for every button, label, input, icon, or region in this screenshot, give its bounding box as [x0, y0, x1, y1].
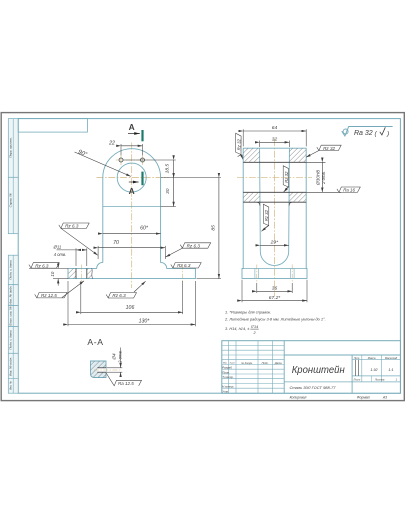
- svg-text:А3: А3: [382, 396, 387, 400]
- svg-text:Утв.: Утв.: [222, 389, 229, 393]
- svg-text:Ra 16: Ra 16: [343, 188, 355, 193]
- svg-text:): ): [386, 130, 389, 137]
- dimension 64: [243, 125, 306, 146]
- svg-text:36: 36: [272, 286, 278, 292]
- dimension 10 flange height: [50, 262, 68, 285]
- svg-text:106: 106: [126, 305, 135, 311]
- svg-text:Rz 32: Rz 32: [236, 138, 241, 150]
- svg-text:3. Н14, h14, ±: 3. Н14, h14, ±: [225, 326, 250, 331]
- section line mark A bottom: [129, 172, 143, 197]
- roughness Ra 16 on bore extension: [337, 187, 360, 193]
- roughness Rz 6.3 right of boss: [166, 243, 211, 257]
- svg-text:10: 10: [50, 271, 55, 277]
- svg-text:2 отв.: 2 отв.: [117, 350, 122, 364]
- dimension 106: [81, 281, 183, 314]
- svg-text:А: А: [129, 122, 135, 132]
- svg-text:32: 32: [272, 137, 278, 143]
- dimension 18.5 and 30: [123, 160, 221, 207]
- svg-text:18.5: 18.5: [165, 164, 171, 174]
- svg-text:Ø11: Ø11: [53, 244, 62, 249]
- svg-text:№ докум.: № докум.: [241, 361, 253, 365]
- section hatching top band: [243, 148, 259, 162]
- svg-text:Ra 32: Ra 32: [354, 130, 373, 137]
- svg-text:Rz 6.3: Rz 6.3: [177, 263, 191, 268]
- svg-text:Кронштейн: Кронштейн: [292, 365, 345, 376]
- svg-text:А-А: А-А: [87, 337, 103, 347]
- svg-text:Взам. инв. №: Взам. инв. №: [9, 306, 13, 326]
- svg-text:Разраб.: Разраб.: [222, 366, 232, 370]
- roughness Rz 6.3 upper left: [59, 223, 98, 255]
- svg-text:Сталь 30Л ГОСТ 988-77: Сталь 30Л ГОСТ 988-77: [289, 385, 336, 390]
- dimension 22: [108, 140, 142, 155]
- svg-text:Ø4: Ø4: [112, 353, 117, 361]
- svg-text:А: А: [129, 186, 135, 196]
- svg-text:Инв. № дубл.: Инв. № дубл.: [9, 285, 13, 304]
- roughness Rz 32 section top-left: [236, 133, 243, 159]
- svg-text:Rz 12.5: Rz 12.5: [41, 293, 57, 298]
- bore lower edge: [243, 191, 306, 193]
- svg-text:Справ. №: Справ. №: [9, 193, 13, 208]
- svg-text:64: 64: [272, 125, 278, 131]
- dimension 70: [98, 240, 165, 259]
- drawing frame: [18, 119, 400, 394]
- svg-text:30: 30: [165, 188, 171, 194]
- svg-text:IT14: IT14: [251, 325, 259, 329]
- section view outline: [242, 148, 307, 278]
- base top line: [243, 268, 306, 270]
- roughness Rz 32 in slot: [261, 204, 269, 231]
- svg-text:85: 85: [211, 225, 217, 231]
- svg-text:Подп. и дата: Подп. и дата: [9, 260, 13, 280]
- svg-text:60*: 60*: [140, 226, 149, 232]
- svg-text:22: 22: [108, 140, 115, 146]
- flange hole edges: [75, 268, 77, 278]
- svg-text:Перв. примен.: Перв. примен.: [9, 137, 13, 158]
- front view body outline: [68, 149, 195, 279]
- roughness Rz 6.3 under base: [106, 281, 146, 298]
- svg-text:Ra 12.5: Ra 12.5: [118, 381, 134, 386]
- svg-text:Пров.: Пров.: [222, 370, 230, 374]
- svg-text:Масса: Масса: [368, 356, 376, 360]
- svg-text:Лист: Лист: [353, 377, 362, 381]
- svg-text:Rz 32: Rz 32: [323, 146, 335, 151]
- section hatching lower band: [243, 192, 259, 202]
- svg-text:Дата: Дата: [274, 361, 282, 365]
- small hole right: [141, 158, 145, 162]
- dimension Ø30H8 2 holes: [306, 162, 341, 192]
- dimension Ø11 4 holes: [53, 244, 87, 266]
- flange local section hatching: [68, 268, 76, 278]
- top-left designation box: [18, 119, 87, 133]
- roughness Rz 6.3 on right flange: [171, 263, 201, 269]
- front view centerlines: [81, 143, 182, 289]
- left margin stamp boxes: [8, 119, 18, 394]
- svg-text:Инв. №: Инв. №: [9, 381, 13, 390]
- 90° chamfer leader: [75, 149, 131, 176]
- svg-text:Rz 6.3: Rz 6.3: [187, 243, 201, 248]
- title block: [222, 341, 401, 394]
- svg-text:Копировал: Копировал: [290, 396, 307, 400]
- svg-text:Rz 6.3: Rz 6.3: [65, 224, 79, 229]
- local section break line: [91, 268, 94, 278]
- svg-text:Н.контр.: Н.контр.: [222, 385, 234, 389]
- section line mark A top: [128, 122, 143, 141]
- svg-text:Rz 6.3: Rz 6.3: [35, 263, 49, 268]
- svg-text:67.2*: 67.2*: [269, 295, 282, 301]
- svg-text:2 отв.: 2 отв.: [321, 171, 326, 185]
- svg-text:Листов: Листов: [374, 377, 385, 381]
- roughness Rz 32 section top-right: [306, 145, 341, 157]
- dimension 130*: [68, 281, 195, 326]
- base hole silhouettes: [254, 269, 256, 279]
- svg-text:70: 70: [113, 240, 119, 246]
- svg-text:29*: 29*: [270, 240, 279, 246]
- dimension 60*: [103, 226, 161, 234]
- svg-text:Т.контр.: Т.контр.: [222, 375, 234, 379]
- svg-text:1.92: 1.92: [370, 368, 377, 372]
- small hole left: [119, 158, 123, 162]
- bore upper edge: [243, 161, 306, 163]
- A-A detail roughness Ra 12.5: [106, 373, 142, 386]
- svg-text:Масштаб: Масштаб: [385, 356, 398, 360]
- boss bottom tangent line: [103, 206, 161, 208]
- sheet background: [1, 113, 404, 401]
- dimension 67.2*: [242, 280, 307, 302]
- svg-text:4 отв.: 4 отв.: [54, 252, 66, 257]
- svg-text:Формат: Формат: [357, 396, 371, 400]
- technical requirement notes: [224, 310, 326, 335]
- dimension 85 overall: [197, 178, 222, 279]
- cavity ceiling edge: [243, 201, 306, 203]
- svg-text:Инв. № подл.: Инв. № подл.: [9, 357, 13, 376]
- title block texts: [222, 356, 397, 400]
- svg-text:Rz 32: Rz 32: [284, 171, 289, 183]
- general roughness Ra 32: [342, 127, 393, 138]
- roughness Rz 12.5 bottom left: [35, 281, 84, 298]
- dimension 29*: [260, 240, 289, 246]
- svg-text:Rz 32: Rz 32: [264, 209, 269, 221]
- svg-text:Изм.: Изм.: [223, 363, 228, 365]
- svg-text:Rz 6.3: Rz 6.3: [112, 293, 126, 298]
- svg-text:Подп.: Подп.: [262, 361, 269, 365]
- svg-text:Подп. и дата: Подп. и дата: [9, 330, 13, 350]
- slot walls with cast bottom: [260, 148, 290, 265]
- dimension 36: [257, 283, 292, 293]
- svg-text:Лист: Лист: [229, 363, 236, 365]
- main bore circle: [117, 163, 146, 192]
- svg-text:1. *Размеры для справок.: 1. *Размеры для справок.: [225, 310, 271, 315]
- svg-text:2. Литейные радиусы 3-8 мм. Ли: 2. Литейные радиусы 3-8 мм. Литейные укл…: [224, 316, 326, 321]
- svg-text:Лит.: Лит.: [353, 356, 360, 360]
- A-A detail hole dimension: [107, 348, 123, 377]
- roughness Rz 32 at bore: [283, 166, 289, 192]
- dimension 32: [260, 137, 290, 147]
- svg-text:1:1: 1:1: [388, 368, 393, 372]
- section view centerlines: [237, 139, 312, 296]
- roughness Rz 6.3 on left extension: [29, 263, 68, 269]
- svg-text:130*: 130*: [139, 318, 151, 324]
- A-A detail block: [91, 361, 107, 378]
